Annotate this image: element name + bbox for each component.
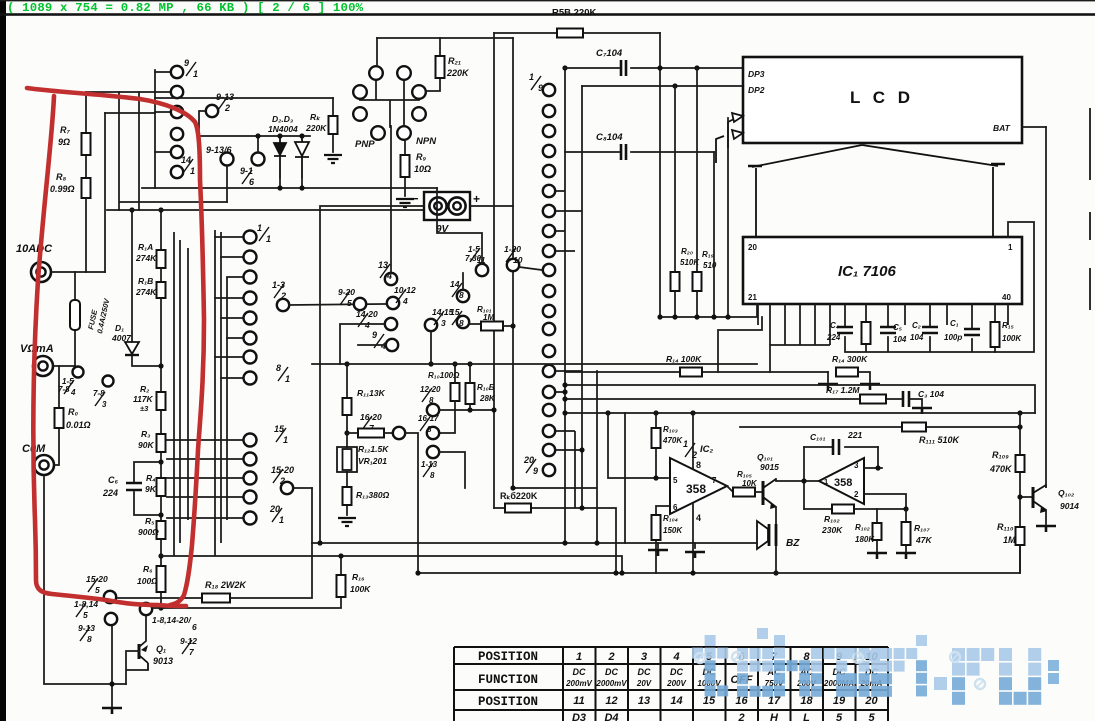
wire 1-3/2 to 9-20/5 [289,304,387,305]
svg-text:358: 358 [686,482,706,496]
svg-text:C₈104: C₈104 [596,132,623,143]
junction [510,485,515,490]
resistor R104 150K [652,515,661,540]
svg-text:3: 3 [441,318,446,328]
diode D1 4007 [125,342,139,354]
contact 1-20/10 [507,259,519,271]
wire y488 [513,371,597,543]
svg-text:R₁B: R₁B [138,276,153,286]
contact 9-20/5 [354,298,366,310]
wire R16 branch [154,556,341,608]
wire long x513 [512,38,514,488]
wire long x494 [493,33,495,508]
resistor R20 510K [671,272,680,291]
junction [801,478,806,483]
svg-text:R₈: R₈ [56,172,66,182]
svg-text:R₁₀₇: R₁₀₇ [914,523,930,533]
resistor R15 100K [991,322,1000,347]
junction [158,363,163,368]
resistor R8 [82,178,91,198]
junction [428,361,433,366]
wire R7 branch [85,92,87,198]
wire pin1 loop [995,222,1034,352]
svg-text:R₁₀Б: R₁₀Б [477,383,495,392]
capacitor C8 104 [621,144,626,160]
junction [579,447,584,452]
svg-text:DP3: DP3 [748,69,765,79]
svg-text:7-8: 7-8 [58,385,70,394]
junction [903,506,908,511]
junction [299,185,304,190]
resistor R106 180K [873,523,882,540]
svg-text:IC₁ 7106: IC₁ 7106 [838,263,896,280]
svg-text:274K: 274K [135,287,157,297]
contact wafer1 6 [171,166,183,178]
wire C3 out [909,399,922,406]
wire Q1 collector feed [139,616,146,647]
svg-text:−: − [411,191,419,206]
junction [109,681,114,686]
svg-text:+: + [473,192,480,206]
svg-text:2: 2 [607,651,614,663]
svg-text:2: 2 [280,291,286,301]
wire R9 branch [404,140,406,196]
wire R107 branch [905,509,907,552]
svg-text:6: 6 [192,622,197,632]
resistor R9 [401,155,410,177]
wire R8 to 10A [85,198,87,272]
resistor R18 2W2K [202,594,230,603]
wire vertical x139 [138,92,140,210]
svg-text:C₃ 104: C₃ 104 [918,389,944,399]
wire bus y385 [565,385,1035,413]
contact wafer9 y371 [543,365,555,377]
wire x312 down [311,488,313,543]
wire hFE internal [360,80,419,127]
wire bus y413 [565,412,1035,414]
svg-text:R₁₂1.5K: R₁₂1.5K [358,444,389,454]
svg-text:DC: DC [670,667,683,677]
svg-text:1: 1 [266,234,271,244]
wire 1-20 to wafer9 [519,267,542,270]
junction [255,133,260,138]
svg-text:8: 8 [87,634,92,644]
contact wafer9 y470 [543,464,555,476]
svg-text:R₁₉: R₁₉ [702,250,714,259]
op-amp U2B 358 [819,458,864,504]
wire bus y98 [155,97,333,99]
svg-text:R₁₀₃: R₁₀₃ [663,425,678,434]
scan border left [0,0,6,721]
wire Q102 collector [1045,485,1047,487]
svg-text:R₁₁13K: R₁₁13K [357,388,386,398]
hFE socket contacts [369,66,383,80]
wire DP2 line [675,85,743,87]
wire contact stub [215,356,243,358]
junction [158,207,163,212]
wire contact stub [215,297,243,299]
svg-text:R₁₄ 300K: R₁₄ 300K [832,354,868,364]
capacitor C2 104 [922,327,938,333]
contact wafer9 y431 [543,425,555,437]
svg-text:9: 9 [184,58,189,68]
contact 14-15/3 [425,319,437,331]
svg-text:1: 1 [576,651,582,663]
resistor R4 [157,478,166,496]
svg-text:4: 4 [380,341,386,351]
contact wafer9 y131 [543,125,555,137]
contact wafer2 y440 [244,434,257,447]
contact 1-3/2 [277,299,289,311]
svg-text:R₂: R₂ [140,384,150,394]
wire 9-13/2 [199,111,205,136]
svg-text:21: 21 [748,293,757,302]
resistor R6 [157,566,166,592]
resistor R102 230K [832,505,854,514]
svg-text:4: 4 [364,320,370,330]
wire Q102 emitter [1045,510,1047,524]
svg-text:100K: 100K [350,584,371,594]
junction [605,410,610,415]
svg-text:R₅: R₅ [145,516,155,526]
wire bus y330 [718,317,762,372]
svg-text:100K: 100K [1002,334,1022,343]
red marker outline [27,88,204,605]
svg-text:20V: 20V [636,679,652,688]
svg-text:R₁₀₉: R₁₀₉ [992,450,1009,460]
junction [1017,494,1022,499]
wire x728 [727,118,729,317]
wire R10 [439,364,455,433]
svg-text:R₁₀₂: R₁₀₂ [855,523,870,532]
wire BAT down x1046 [1045,127,1047,487]
wire long x582 [581,86,583,508]
svg-text:R₂₀: R₂₀ [681,247,693,256]
svg-text:12: 12 [605,695,617,707]
wire R22 branch [332,98,334,152]
svg-text:5: 5 [673,476,678,485]
wire bus y543 [312,542,757,544]
resistor R109 470K [1016,455,1025,472]
svg-text:10: 10 [513,255,523,265]
svg-text:2: 2 [737,712,744,721]
svg-text:5: 5 [83,610,88,620]
svg-text:6: 6 [673,503,678,512]
wire col1 feed [154,70,156,188]
resistor R13 380 [343,487,352,505]
svg-text:7: 7 [712,476,717,485]
wire Rmb line [494,508,616,573]
svg-text:14: 14 [670,695,682,707]
contact wafer9 y171 [543,165,555,177]
svg-text:9Ω: 9Ω [58,137,70,147]
svg-text:0.99Ω: 0.99Ω [50,184,75,194]
svg-text:R5B 220K: R5B 220K [552,8,596,19]
svg-text:13: 13 [638,695,650,707]
contact wafer9 y311 [543,305,555,317]
resistor R111 510K [902,423,926,432]
wire R5B bus [494,32,660,34]
svg-text:1: 1 [193,69,198,79]
wire bus y427 [740,426,1020,428]
svg-text:R₀: R₀ [68,407,78,417]
svg-text:5: 5 [347,298,352,308]
contact 1-5,7-30/11 [476,264,488,276]
wire C8 line [565,151,714,153]
junction [875,465,880,470]
junction [452,361,457,366]
contact 7-8/3 [103,376,114,387]
svg-text:±3: ±3 [140,404,149,413]
resistor R0 [55,408,64,428]
svg-text:C₆: C₆ [108,475,118,485]
svg-text:4: 4 [402,296,408,306]
junction [690,570,695,575]
table position/function [454,647,888,710]
svg-text:C₂: C₂ [912,321,921,330]
junction [158,512,163,517]
resistor R101 1M [481,322,503,331]
wire pin8 [692,413,694,469]
wire 10A jack [51,271,105,273]
junction [344,430,349,435]
svg-text:100Ω: 100Ω [137,576,158,586]
wire 9/4 stub [358,344,386,346]
wire contact stub [221,377,243,379]
svg-text:220K: 220K [446,68,470,78]
svg-text:Rₖ: Rₖ [310,112,321,122]
svg-text:R₆: R₆ [143,564,153,574]
svg-text:4: 4 [70,388,76,397]
ground R106 [867,553,887,559]
capacitor C4 224 [837,327,853,333]
contact wafer9 y450 [543,444,555,456]
wire collector Q101 [776,479,819,481]
junction [562,65,567,70]
potentiometer VR1 201 [337,447,357,472]
wire bus y136 [199,135,310,137]
contact 16-17/8 [427,427,439,439]
wire R11 chain [346,364,348,515]
svg-text:2: 2 [224,103,230,113]
junction [711,314,716,319]
wire bus y38 [377,37,513,39]
wire gnd stub2 [694,543,696,548]
wire loop bottom [804,508,906,510]
svg-text:1: 1 [283,435,288,445]
contact 1-13/8 [427,446,439,458]
contact wafer2 y357 [244,351,257,364]
svg-text:DC: DC [638,667,651,677]
svg-text:Q₁₀₁: Q₁₀₁ [757,452,773,462]
capacitor C6 224 [126,483,142,490]
ground bus2 [685,552,705,558]
wire fuse branch [74,272,76,366]
svg-text:224: 224 [826,333,841,342]
junction [277,185,282,190]
svg-text:8: 8 [429,396,434,405]
svg-text:R₁₀₂: R₁₀₂ [824,514,840,524]
svg-text:9-13/6: 9-13/6 [206,145,233,155]
svg-text:D₁: D₁ [115,323,124,333]
wire 1-13 down [439,452,465,488]
wire R0 branch [54,366,59,465]
svg-text:1-8,14-20/: 1-8,14-20/ [152,615,192,625]
svg-text:H: H [770,712,779,721]
svg-text:1: 1 [257,223,262,233]
contact wafer9 y251 [543,245,555,257]
resistor R10 [451,383,460,401]
contact wafer2 y378 [244,372,257,385]
contact wafer2 y338 [244,332,257,345]
junction [579,505,584,510]
svg-text:224: 224 [102,488,118,498]
svg-text:900Ω: 900Ω [138,527,159,537]
svg-text:10Ω: 10Ω [414,164,431,174]
svg-text:Rₖб220K: Rₖб220K [500,491,538,501]
contact 16-20/7 [393,427,405,439]
svg-text:2: 2 [691,450,697,460]
svg-text:R₇: R₇ [60,125,70,135]
svg-text:R₁₁₀: R₁₁₀ [997,522,1014,532]
wire top y92 [86,91,155,93]
wire 14/8 stub [462,273,464,290]
resistor R11 13K [343,398,352,415]
wire R21 branch [426,38,440,91]
wire wafer9 stubs [556,191,582,508]
ground R22 [324,155,342,163]
svg-text:DC: DC [605,667,618,677]
svg-text:R₁₄ 100K: R₁₄ 100K [666,354,702,364]
svg-text:9013: 9013 [153,656,173,666]
wire to Q101 [755,491,763,493]
resistor Rint [862,322,871,344]
svg-text:R₁₆: R₁₆ [352,572,365,582]
wire R103 branch [655,413,657,478]
resistor R2 [157,392,166,410]
contact 9-13/2 [206,105,218,117]
svg-text:1M: 1M [1003,535,1016,545]
wire V jack [53,365,75,367]
contact wafer1 3 [171,106,183,118]
resistor R21 [436,56,445,78]
contact 14/8 [457,290,469,302]
contact wafer9 y329 [543,323,555,335]
wire C101 loop top [804,446,878,448]
ground G1 [102,708,122,714]
wire R18 line [118,543,312,598]
wire bus y317 [660,304,757,317]
svg-text:5: 5 [95,585,100,595]
svg-text:3: 3 [641,651,647,663]
svg-text:11: 11 [573,695,584,707]
svg-text:IC₂: IC₂ [700,444,714,455]
junction [562,382,567,387]
junction [672,314,677,319]
svg-text:200V: 200V [666,679,686,688]
resistor R22 220K [329,116,338,134]
svg-text:( 1089 x 754 = 0.82 MP , 66 K: ( 1089 x 754 = 0.82 MP , 66 KB ) [ 2 / 6… [7,1,364,15]
svg-text:8: 8 [427,425,432,434]
svg-text:C₁: C₁ [950,319,959,328]
wire IC pin stubs [758,304,1008,345]
ground R9 [396,199,414,207]
junction [415,570,420,575]
wire bus y188 [142,187,437,189]
svg-text:9015: 9015 [760,462,779,472]
svg-text:R₁₅: R₁₅ [1002,321,1014,330]
wire stub down [769,345,771,372]
svg-text:150K: 150K [663,526,683,535]
op-amp U2A 358 [670,458,727,514]
svg-text:D3: D3 [572,712,586,721]
junction [344,361,349,366]
svg-text:DP2: DP2 [748,85,765,95]
svg-text:40: 40 [1002,293,1011,302]
wire R14 300K feed [836,371,858,373]
resistor R17 1.2M [860,395,886,404]
contact 1-8,14/5 [105,613,117,625]
wire contact stub [167,496,243,498]
svg-text:R₁A: R₁A [138,242,153,252]
resistor R16 100K [337,575,346,597]
wire contact stub [227,337,243,339]
wire contact stub [227,276,243,278]
wire y113 [105,112,155,114]
wire contact stub [167,439,243,441]
wire 14-20/4 [340,324,385,364]
wire contact stub [221,256,243,258]
wire 9-13/6 stub [226,166,228,202]
contact wafer1 1 [171,66,183,78]
wire x1020 [1019,413,1021,573]
junction [657,314,662,319]
wire loop right [877,447,879,468]
svg-text:4007: 4007 [111,333,132,343]
diode D3 1N4004 [295,136,309,156]
resistor R19 510 [693,272,702,291]
svg-text:90K: 90K [138,440,154,450]
wire cluster under IC [845,304,995,352]
transistor Q1 9013 [138,644,141,659]
jack 10ADC [31,262,51,282]
wire 9-1/6 stub [257,136,259,152]
svg-text:C₇104: C₇104 [596,48,623,59]
wire R106 branch [876,509,878,552]
wire col2 feeders [174,230,227,556]
wire long x565 [564,68,566,543]
svg-text:R₉: R₉ [416,152,426,162]
contact wafer9 y111 [543,105,555,117]
resistor R5 [157,521,166,539]
junction [594,540,599,545]
junction [158,553,163,558]
svg-text:R₄: R₄ [146,473,156,483]
LCD module [743,57,1022,143]
junction [694,65,699,70]
resistor R105 10K [733,488,755,497]
junction [467,407,472,412]
junction [491,407,496,412]
wire contact to ground [111,625,113,707]
junction [317,540,322,545]
resistor R16B 220K [505,504,531,513]
contact wafer2 y518 [244,512,257,525]
svg-text:100p: 100p [944,333,962,342]
wire battery minus [320,206,424,543]
svg-text:R₃: R₃ [141,429,150,439]
junction [725,314,730,319]
